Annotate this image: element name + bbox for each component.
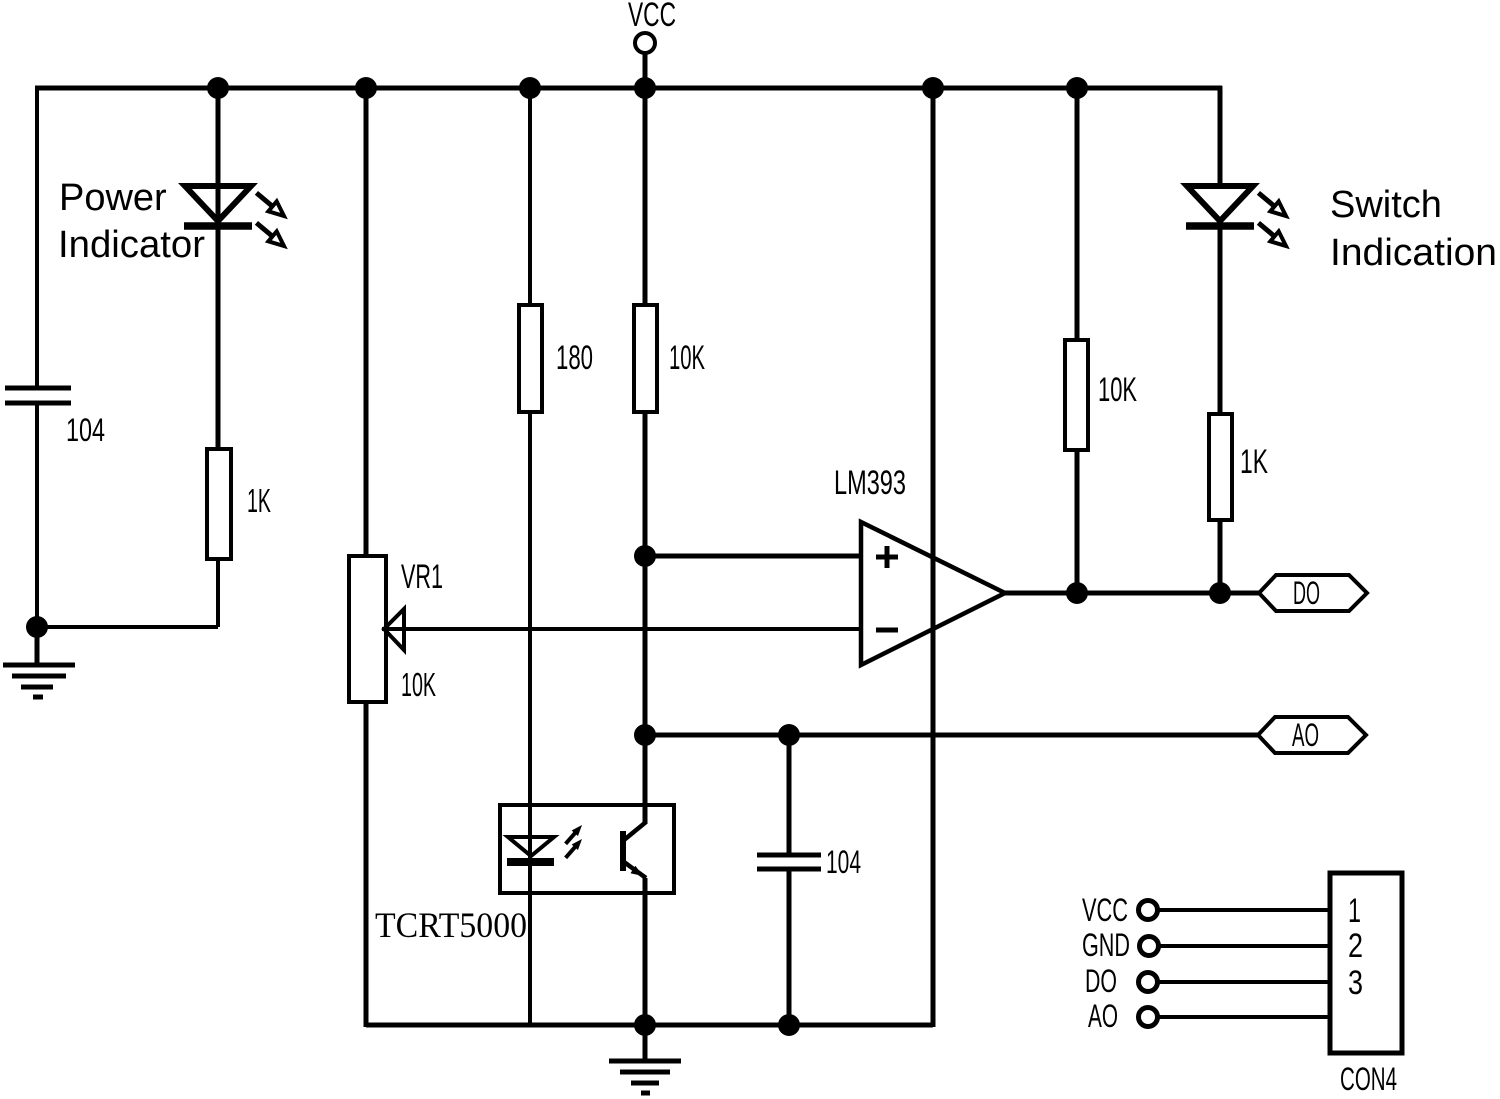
wire bottom horizontal: [366, 1023, 933, 1028]
junction dot AO x645: [634, 724, 656, 746]
wire x1077 lower: [1075, 450, 1080, 593]
wire x645 middle: [643, 412, 648, 824]
svg-text:Switch: Switch: [1330, 184, 1442, 226]
junction dot top bus x933: [922, 77, 944, 99]
junction dot top bus x366: [355, 77, 377, 99]
ground left: [3, 627, 75, 697]
LED switch indication: [1186, 186, 1290, 251]
svg-text:VCC: VCC: [1082, 892, 1128, 928]
op-amp U1 LM393: [834, 464, 1005, 665]
svg-text:DO: DO: [1293, 575, 1320, 611]
pin GND of CON4: [1082, 927, 1330, 963]
svg-text:Power: Power: [59, 177, 167, 219]
capacitor C2 104: [757, 844, 861, 880]
svg-text:10K: 10K: [669, 339, 705, 377]
wire capacitor C2 upper: [787, 735, 792, 855]
wire minus input: [382, 627, 861, 631]
svg-text:10K: 10K: [1098, 371, 1137, 409]
wire op-amp output: [1005, 591, 1259, 596]
wire top VCC bus: [35, 86, 1222, 91]
potentiometer VR1 10K: [349, 556, 443, 703]
wire left vertical lower: [35, 405, 39, 627]
svg-text:GND: GND: [1082, 927, 1130, 963]
svg-text:10K: 10K: [401, 666, 436, 703]
wire capacitor C2 lower: [787, 869, 792, 1025]
svg-text:104: 104: [66, 412, 105, 448]
junction dot plus input: [634, 545, 656, 567]
svg-text:DO: DO: [1085, 963, 1117, 999]
connector CON4: [1330, 873, 1402, 1097]
LED power indicator: [184, 186, 288, 251]
svg-text:1: 1: [1348, 892, 1361, 930]
wire x1220 lower: [1218, 520, 1223, 593]
pin VCC of CON4: [1082, 892, 1330, 928]
capacitor C1 104: [5, 388, 105, 448]
wire x366 lower: [364, 700, 369, 1027]
net flag DO: [1259, 575, 1367, 611]
resistor R 10K right: [1065, 340, 1137, 450]
svg-text:VCC: VCC: [628, 0, 676, 34]
wire x1077 upper: [1075, 88, 1080, 342]
junction dot top bus x218: [207, 77, 229, 99]
net flag AO: [1258, 717, 1366, 753]
svg-text:1K: 1K: [247, 482, 271, 519]
pin AO of CON4: [1088, 998, 1330, 1034]
photo interrupter U2 TCRT5000: [500, 805, 674, 893]
label Switch Indication: [1330, 184, 1497, 274]
svg-text:3: 3: [1348, 964, 1363, 1002]
resistor R 10K middle: [634, 305, 705, 412]
junction dot top bus x1077: [1066, 77, 1088, 99]
wire x218 upper: [216, 88, 221, 449]
junction dot top bus x645: [634, 77, 656, 99]
svg-text:Indication: Indication: [1330, 232, 1497, 274]
ground middle: [609, 1025, 681, 1093]
wire x645 upper: [643, 88, 648, 307]
svg-text:AO: AO: [1088, 998, 1118, 1034]
wire bottom-left horizontal: [37, 625, 218, 629]
junction dot output x1077: [1066, 582, 1088, 604]
svg-text:180: 180: [556, 339, 593, 377]
junction dot left ground node: [26, 616, 48, 638]
wire x218 lower: [216, 557, 220, 627]
svg-text:LM393: LM393: [834, 464, 906, 502]
wire x530 lower: [528, 412, 532, 1025]
node VCC terminal: [628, 0, 676, 53]
junction dot output x1220: [1209, 582, 1231, 604]
wire left vertical upper: [35, 86, 39, 386]
junction dot bottom x789: [778, 1014, 800, 1036]
wire top bus right corner down: [1218, 86, 1223, 188]
wire x530 upper: [528, 88, 532, 307]
junction dot bottom x645: [634, 1014, 656, 1036]
wire x645 emitter lower: [643, 878, 648, 1025]
resistor R 1K left: [207, 449, 271, 559]
wire VCC stub: [643, 53, 648, 88]
svg-text:CON4: CON4: [1340, 1061, 1397, 1097]
svg-text:VR1: VR1: [401, 558, 443, 596]
svg-text:AO: AO: [1292, 717, 1319, 753]
wire plus input: [645, 554, 861, 559]
junction dot AO x789: [778, 724, 800, 746]
svg-text:1K: 1K: [1240, 443, 1268, 481]
wire x366 upper: [364, 88, 369, 558]
resistor R 180: [519, 305, 593, 412]
junction dot top bus x530: [519, 77, 541, 99]
wire AO horizontal: [645, 733, 1258, 738]
svg-text:Indicator: Indicator: [58, 224, 205, 266]
svg-text:TCRT5000: TCRT5000: [375, 905, 527, 945]
wire x933 vertical: [931, 88, 936, 1027]
wire x1220 middle: [1218, 228, 1223, 416]
resistor R 1K right: [1209, 414, 1268, 520]
svg-text:104: 104: [826, 844, 861, 880]
svg-text:2: 2: [1348, 927, 1363, 965]
label Power Indicator: [58, 177, 205, 266]
pin DO of CON4: [1085, 963, 1330, 999]
